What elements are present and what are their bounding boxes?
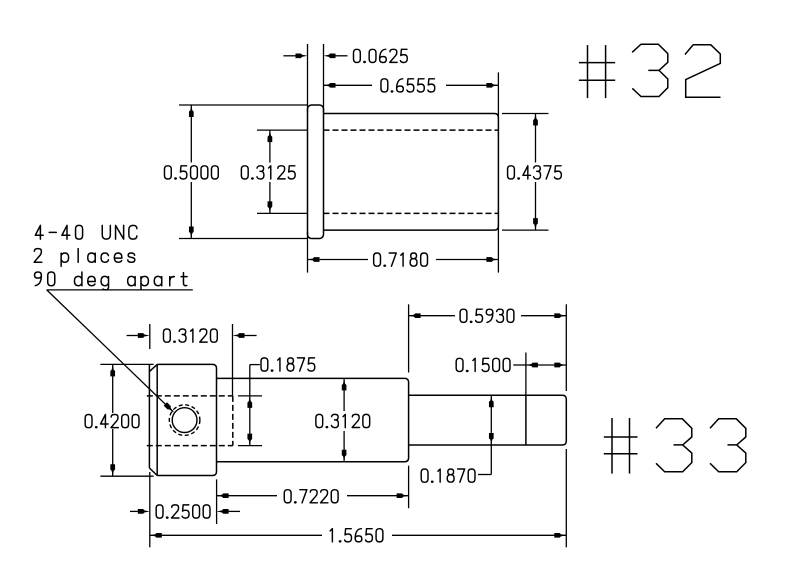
label #32 digit 2 [685,45,721,97]
dimension 0.3125 text [241,166,295,179]
dimension 0.0625 arrows and leader [296,53,308,58]
dimension 0.3120 depth text [163,329,217,342]
note leader line [47,290,174,412]
part #33 hidden axial bore top [147,395,233,397]
part #33 head chamfer tangent line [156,364,158,475]
dimension 0.1875 [238,365,262,446]
part #32 body [324,114,499,231]
note text 2 places [34,249,135,267]
dimension 0.1870 text [421,469,475,482]
part #33 head top chamfer [149,364,157,371]
dimension 0.3120 middle [343,378,345,461]
part #32 flange [308,105,324,239]
dimension 0.4375 text [508,166,562,179]
part #33 section 2 outline [217,378,409,461]
dimension 0.3125 [257,130,308,213]
label #32 digit 3 [632,44,668,96]
dimension 0.4375 [502,114,549,231]
dimension 0.5930 text [460,309,514,322]
dimension 1.5650 text [330,529,383,542]
label #32 hash [579,45,615,98]
dimension 0.1875 text [261,358,315,371]
dimension 0.1500 text [456,358,510,371]
part #33 head bottom chamfer [149,468,157,476]
dimension 0.4200 [100,364,153,476]
dimension 0.6555 [324,72,499,118]
label #33 digit 3 second [710,419,746,472]
dimension 0.3120 top [127,324,257,396]
dimension 0.0625 extension lines [308,44,324,112]
note text 90 deg apart [35,272,188,290]
dimension 0.7220 text [284,490,338,503]
label #33 digit 3 first [656,419,692,472]
part #33 head outline [157,364,216,475]
dimension 0.7220 [217,466,409,524]
note underline [47,289,193,291]
note text 4-40 UNC [35,225,137,239]
dimension 0.1870 [478,395,491,474]
dimension 0.5000 text [164,166,218,179]
dimension 0.4200 text [85,415,139,428]
dimension 0.1500 [513,353,566,396]
part #33 groove line [525,395,527,445]
part #33 tapped hole thread circle [169,405,200,436]
dimension 0.2500 text [156,505,210,518]
dimension 0.7180 text [374,253,428,266]
part #33 hidden axial bore end [232,396,234,446]
part #33 section 3 outline [409,395,567,445]
part #32 hidden bore top line [324,129,499,131]
note leader arrowhead [164,402,174,412]
dimension 0.7180 [308,225,499,273]
part #33 hidden axial bore bottom [147,445,233,447]
dimension 0.6555 text [381,79,435,92]
dimension 0.2500 [130,510,240,512]
label #33 hash [604,418,638,474]
part #32 hidden bore bottom line [324,212,499,214]
part #33 head left face edge [148,364,150,468]
dimension 0.3120 diameter text [316,414,370,427]
part #33 tapped hole inner circle [172,408,197,433]
dimension 0.0625 text [354,49,408,62]
dimension 0.5000 [179,105,308,239]
dimension 1.5650 [150,449,567,547]
dimension 0.5930 [409,304,567,391]
